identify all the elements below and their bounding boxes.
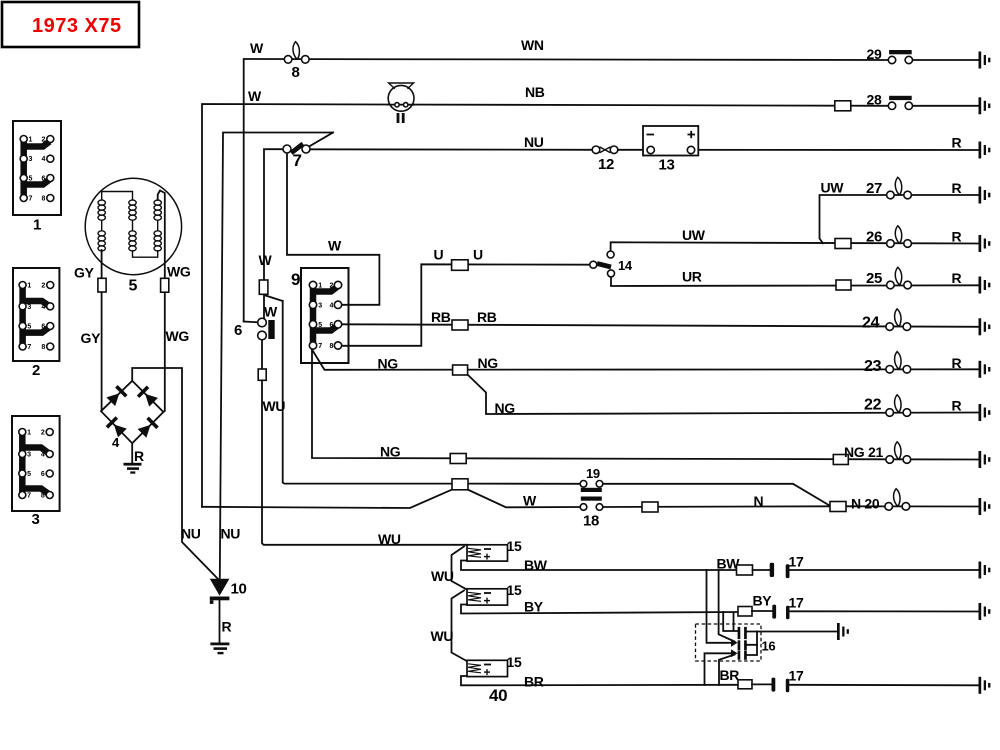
- svg-text:4: 4: [112, 435, 120, 450]
- wire NG row22 branch: [468, 375, 979, 415]
- wire UW row27 branch: [820, 195, 979, 243]
- ground row 26: [979, 235, 991, 252]
- wire W row1 bend to switch6: [244, 321, 258, 324]
- ground row 24: [979, 318, 991, 335]
- svg-text:BR: BR: [720, 667, 740, 683]
- battery 13: [643, 126, 698, 156]
- svg-text:17: 17: [789, 668, 804, 684]
- svg-text:25: 25: [866, 270, 882, 287]
- svg-text:3: 3: [27, 304, 31, 311]
- wire GY alternator to rectifier: [101, 250, 103, 411]
- svg-text:R: R: [952, 180, 962, 196]
- svg-text:WU: WU: [431, 568, 454, 584]
- lamp 27: [887, 177, 912, 199]
- svg-text:28: 28: [867, 92, 882, 108]
- svg-text:4: 4: [41, 452, 45, 459]
- switch 14: [590, 261, 597, 268]
- svg-text:7: 7: [29, 196, 33, 203]
- svg-text:WU: WU: [431, 628, 454, 644]
- svg-text:NG: NG: [478, 355, 499, 371]
- wire W switch7 to pin4 of connector9: [287, 153, 379, 305]
- lamp 24: [886, 309, 911, 331]
- wire WU below switch6: [262, 340, 467, 545]
- connector: [836, 280, 851, 290]
- svg-text:3: 3: [29, 156, 33, 163]
- 4-way connector: [452, 479, 468, 490]
- svg-text:NG: NG: [378, 356, 399, 372]
- capacitor plates top: [738, 627, 741, 639]
- plug cap BR: [772, 678, 776, 692]
- svg-text:6: 6: [41, 324, 45, 331]
- svg-text:5: 5: [29, 176, 33, 183]
- wire U pin8 to switch14: [342, 264, 590, 346]
- connector row28: [835, 101, 851, 111]
- svg-text:2: 2: [41, 283, 45, 290]
- wire row2 right to ground: [913, 105, 979, 107]
- connector block 2: [13, 268, 59, 379]
- svg-text:2: 2: [330, 283, 334, 290]
- switch 6: [258, 318, 267, 327]
- connector on switch7 wire: [259, 280, 268, 294]
- wire RB row24: [342, 324, 979, 327]
- svg-text:8: 8: [330, 343, 334, 350]
- svg-text:W: W: [523, 493, 537, 509]
- svg-text:7: 7: [318, 343, 322, 350]
- connector row18: [642, 502, 658, 512]
- wire N row20 right to ground: [846, 505, 979, 507]
- svg-text:NU: NU: [524, 134, 544, 150]
- svg-text:40: 40: [489, 686, 507, 705]
- svg-text:17: 17: [789, 595, 804, 611]
- diode top-right: [137, 386, 159, 408]
- wire NU row3: [306, 148, 592, 151]
- zener diode 10: [210, 579, 230, 596]
- rectifier 4: [101, 381, 163, 443]
- svg-text:GY: GY: [81, 330, 102, 346]
- ground plug BW: [979, 562, 991, 579]
- svg-text:7: 7: [27, 493, 31, 500]
- svg-text:W: W: [248, 88, 262, 104]
- lamp 20: [885, 489, 910, 511]
- svg-text:14: 14: [618, 258, 633, 273]
- ground row 27: [979, 187, 991, 204]
- svg-text:BR: BR: [524, 674, 544, 690]
- connector row20: [830, 502, 846, 512]
- svg-text:W: W: [328, 238, 342, 254]
- coil 15c output: [461, 676, 738, 685]
- svg-text:NB: NB: [525, 84, 545, 100]
- svg-text:8: 8: [41, 344, 45, 351]
- switch 19: [580, 481, 587, 488]
- svg-text:1: 1: [27, 283, 31, 290]
- svg-text:BW: BW: [524, 557, 548, 573]
- svg-text:23: 23: [864, 358, 882, 375]
- capacitor plates middle: [738, 640, 741, 650]
- svg-text:R: R: [222, 619, 232, 635]
- connector: [450, 454, 466, 464]
- connector block 1: [13, 121, 61, 234]
- connector BR: [738, 680, 752, 689]
- svg-text:NU: NU: [221, 526, 241, 542]
- svg-text:15: 15: [507, 654, 522, 670]
- svg-text:R: R: [952, 355, 962, 371]
- svg-text:NG 21: NG 21: [844, 444, 883, 460]
- wire W lower-left row: [202, 490, 452, 509]
- svg-text:5: 5: [27, 471, 31, 478]
- svg-text:1: 1: [318, 283, 322, 290]
- connector: [452, 320, 468, 330]
- svg-text:6: 6: [42, 176, 46, 183]
- svg-text:8: 8: [41, 493, 45, 500]
- svg-text:10: 10: [231, 581, 247, 598]
- ground rectifier: [124, 463, 142, 466]
- alternator 5: [85, 178, 181, 274]
- wire UW row26: [611, 242, 979, 251]
- svg-text:26: 26: [866, 229, 882, 246]
- svg-text:BY: BY: [524, 599, 544, 615]
- ground row 25: [979, 277, 991, 294]
- wire N row18 right: [603, 505, 831, 508]
- svg-text:5: 5: [318, 322, 322, 329]
- svg-text:R: R: [952, 270, 962, 286]
- wire NG row23 from pin7: [312, 350, 979, 370]
- svg-text:27: 27: [866, 180, 882, 197]
- svg-text:RB: RB: [477, 309, 497, 325]
- connector: [453, 365, 468, 375]
- rectifier earth wire: [131, 443, 133, 463]
- svg-text:5: 5: [129, 278, 138, 295]
- connector U row: [452, 260, 469, 271]
- svg-text:GY: GY: [74, 265, 95, 281]
- connector block 9: [291, 268, 349, 363]
- svg-text:6: 6: [234, 322, 242, 339]
- connector on WG wire: [161, 278, 169, 292]
- lamp 25: [887, 267, 912, 289]
- zener earth wire: [219, 600, 221, 642]
- svg-text:16: 16: [762, 639, 776, 654]
- svg-text:17: 17: [789, 554, 804, 570]
- ground plug BR: [979, 677, 991, 694]
- plug cap BW: [770, 563, 774, 577]
- spark plug 17 BY: [786, 606, 790, 620]
- wire row18 left diagonal from connector: [468, 490, 581, 508]
- lamp 22: [886, 395, 911, 417]
- svg-text:W: W: [264, 304, 278, 320]
- svg-text:24: 24: [862, 315, 880, 332]
- svg-text:N: N: [754, 493, 764, 509]
- switch 18: [581, 497, 602, 501]
- connector: [835, 239, 851, 249]
- svg-text:3: 3: [27, 452, 31, 459]
- svg-text:12: 12: [598, 156, 614, 173]
- switch 29: [888, 50, 912, 64]
- ground plug BY: [979, 603, 991, 620]
- ignition coil 15c: [467, 654, 522, 677]
- svg-text:7: 7: [27, 344, 31, 351]
- wire NU from rectifier: [132, 368, 219, 581]
- wire WG alternator to rectifier: [158, 191, 165, 412]
- svg-text:NU: NU: [181, 526, 201, 542]
- svg-text:RB: RB: [431, 309, 451, 325]
- ground row 23: [979, 361, 991, 378]
- wire W from switch7 down to switch6: [264, 149, 284, 318]
- svg-text:4: 4: [330, 302, 334, 309]
- horn 11: [388, 85, 414, 111]
- ground row2: [979, 97, 991, 114]
- lamp 23: [886, 352, 911, 374]
- svg-text:6: 6: [330, 322, 334, 329]
- diode top-left: [106, 385, 128, 407]
- svg-text:R: R: [952, 135, 962, 151]
- svg-text:2: 2: [42, 137, 46, 144]
- capacitor bus: [747, 632, 757, 645]
- wire NG row21 from pin7: [312, 350, 979, 460]
- svg-text:18: 18: [583, 513, 599, 530]
- connector: [833, 455, 848, 465]
- switch 28: [888, 96, 912, 110]
- svg-text:N 20: N 20: [851, 496, 880, 512]
- contact arrow middle: [731, 639, 738, 647]
- svg-text:UR: UR: [682, 269, 702, 285]
- svg-text:8: 8: [292, 64, 300, 81]
- plug cap BY: [772, 605, 776, 619]
- svg-text:3: 3: [32, 511, 40, 528]
- contact arrow bottom: [731, 649, 738, 657]
- capacitor plates bottom: [738, 651, 741, 660]
- svg-text:U: U: [473, 247, 483, 263]
- ground contact-breaker 16: [837, 623, 849, 640]
- coil 15b output: [461, 605, 738, 614]
- wire NU from switch7 lever: [220, 133, 333, 579]
- svg-text:1: 1: [27, 430, 31, 437]
- svg-text:W: W: [250, 40, 264, 56]
- wire row1 right to ground: [913, 59, 979, 61]
- svg-text:5: 5: [27, 324, 31, 331]
- svg-text:WU: WU: [378, 531, 401, 547]
- BY feed wires into 16: [723, 612, 737, 631]
- svg-text:15: 15: [507, 582, 522, 598]
- svg-text:R: R: [134, 448, 144, 464]
- svg-text:6: 6: [41, 471, 45, 478]
- ground row 20: [979, 498, 991, 515]
- ground row 22: [979, 404, 991, 421]
- svg-text:8: 8: [42, 196, 46, 203]
- switch 7: [309, 133, 333, 147]
- svg-text:U: U: [434, 247, 444, 263]
- svg-text:WG: WG: [167, 264, 191, 280]
- lamp 8: [284, 42, 309, 64]
- svg-text:UW: UW: [682, 227, 706, 243]
- BR feed wires into 16: [705, 653, 732, 685]
- svg-text:4: 4: [41, 304, 45, 311]
- ground row1: [979, 52, 991, 69]
- svg-text:NG: NG: [380, 444, 401, 460]
- svg-text:WU: WU: [263, 398, 286, 414]
- svg-text:7: 7: [293, 151, 302, 170]
- connector on GY wire: [98, 278, 106, 292]
- ignition coil 15b: [467, 582, 522, 605]
- svg-text:4: 4: [42, 156, 46, 163]
- connector BY: [738, 607, 752, 617]
- spark plug 17 BW: [786, 564, 790, 578]
- svg-text:UW: UW: [821, 180, 845, 196]
- connector below switch6: [258, 369, 266, 380]
- svg-text:1: 1: [29, 137, 33, 144]
- wire UR row25: [611, 277, 979, 286]
- svg-text:15: 15: [507, 538, 522, 554]
- svg-text:WG: WG: [166, 328, 190, 344]
- coil chain wires: [452, 547, 468, 590]
- svg-text:R: R: [952, 398, 962, 414]
- wire diagonal from connector to brake feed: [266, 296, 283, 302]
- BW feed wires into 16: [707, 570, 732, 643]
- diode bottom-left: [106, 416, 128, 438]
- svg-text:1: 1: [33, 217, 41, 234]
- connector BW: [737, 565, 753, 575]
- spark plug 17 BR: [786, 679, 790, 693]
- svg-text:22: 22: [864, 397, 882, 414]
- svg-text:13: 13: [659, 157, 675, 174]
- svg-text:29: 29: [867, 46, 882, 62]
- wire row19 left: [468, 483, 581, 485]
- coil 15a output: [461, 561, 737, 571]
- svg-text:NG: NG: [495, 400, 516, 416]
- lamp 26: [887, 226, 912, 248]
- wire W row1 left: [244, 59, 889, 322]
- svg-text:2: 2: [41, 430, 45, 437]
- diode bottom-right: [137, 417, 159, 439]
- svg-text:W: W: [259, 252, 273, 268]
- wire NB row2: [202, 104, 889, 507]
- ground row 21: [979, 451, 991, 468]
- fuse 12: [592, 146, 600, 154]
- wire row19 feed from switch7 line: [283, 301, 452, 484]
- svg-text:19: 19: [586, 466, 600, 481]
- svg-text:3: 3: [318, 302, 322, 309]
- ignition coil 15a: [467, 538, 522, 561]
- svg-text:WN: WN: [521, 37, 544, 53]
- svg-text:R: R: [952, 229, 962, 245]
- wire row19 right with diagonal to item20: [603, 484, 831, 506]
- connector block 3: [12, 416, 60, 528]
- svg-text:BY: BY: [753, 593, 773, 609]
- svg-text:1973 X75: 1973 X75: [32, 15, 122, 37]
- ground zener: [210, 643, 229, 646]
- svg-text:9: 9: [291, 270, 300, 289]
- lamp 21: [886, 442, 911, 464]
- ground row3: [979, 142, 991, 159]
- svg-text:2: 2: [32, 362, 40, 379]
